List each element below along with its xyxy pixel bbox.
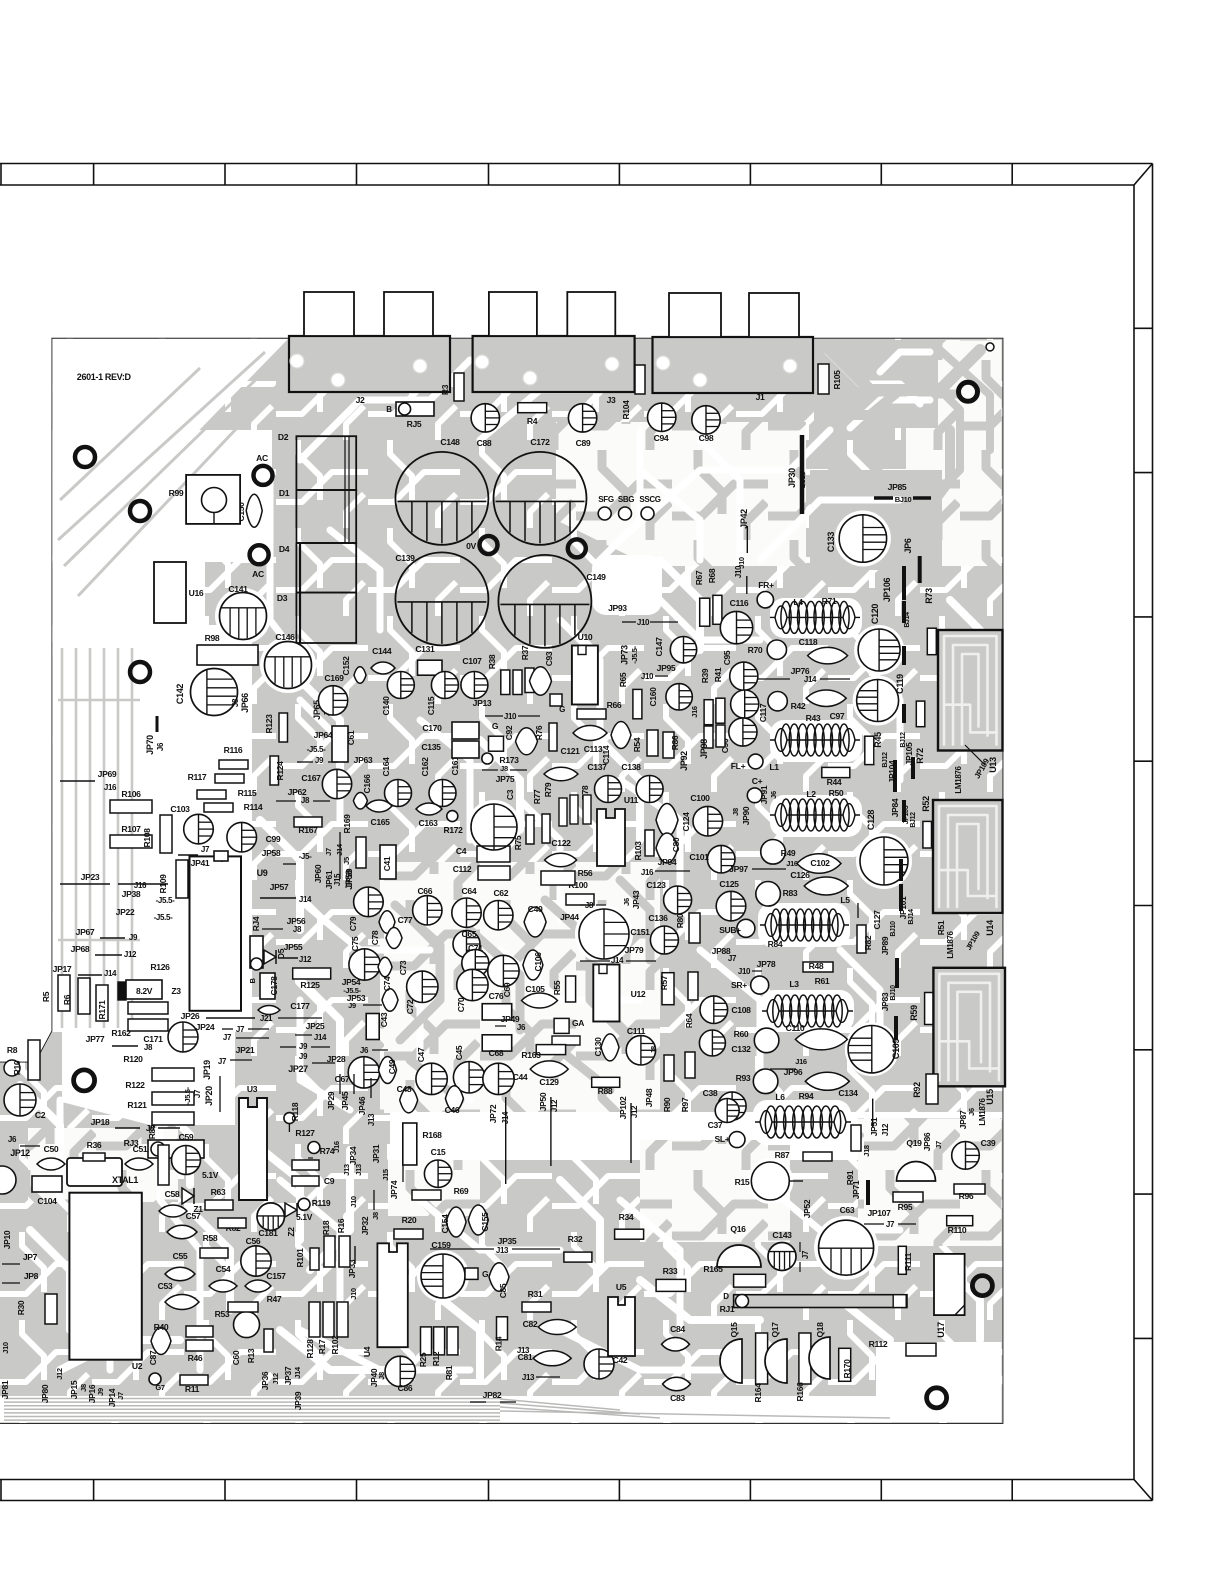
jumper JP71 (851, 1180, 868, 1205)
pad G (489, 721, 504, 751)
svg-text:R82: R82 (863, 935, 873, 950)
resistor R115 (197, 788, 257, 799)
resistor R127 (295, 1128, 319, 1154)
resistor R105 (818, 364, 842, 394)
IC U5 (608, 1282, 635, 1356)
jumper JP68 (71, 944, 137, 959)
svg-text:J10: J10 (504, 712, 517, 721)
svg-text:J15: J15 (381, 1169, 390, 1181)
svg-text:C99: C99 (266, 834, 281, 844)
svg-text:C148: C148 (440, 437, 460, 447)
resistor R38 (487, 654, 522, 694)
svg-text:J1: J1 (756, 392, 765, 402)
svg-text:R48: R48 (809, 961, 824, 971)
jumper JP105 (900, 732, 925, 779)
label LM1876 U14 (936, 920, 995, 959)
svg-text:R38: R38 (487, 654, 497, 669)
svg-text:JP81: JP81 (0, 1380, 10, 1399)
svg-text:R44: R44 (827, 777, 842, 787)
svg-text:R57: R57 (659, 975, 669, 990)
capacitor C133 (826, 515, 887, 562)
terminal SUB+ (719, 919, 755, 937)
svg-text:R56: R56 (578, 868, 593, 878)
jumper JP55 (278, 942, 312, 964)
svg-text:R112: R112 (869, 1339, 888, 1349)
svg-text:JP80: JP80 (40, 1384, 50, 1403)
node J6 left (8, 1135, 40, 1146)
resistor R81 (444, 1327, 458, 1380)
svg-text:JP103: JP103 (903, 805, 910, 824)
svg-text:C59: C59 (179, 1132, 194, 1142)
resistor R59 (909, 993, 936, 1025)
jumper BJ14 (904, 601, 911, 628)
svg-text:JP89: JP89 (880, 936, 890, 955)
connector J3 tab 2 (567, 292, 615, 336)
svg-text:R122: R122 (125, 1080, 145, 1090)
resistor R33 (656, 1266, 686, 1291)
jumper JP34 (342, 1146, 363, 1176)
svg-text:R128: R128 (305, 1339, 315, 1359)
svg-text:C107: C107 (462, 656, 482, 666)
svg-text:R111: R111 (903, 1252, 913, 1271)
svg-text:J7: J7 (728, 954, 737, 963)
capacitor C112 (453, 864, 510, 880)
diode D4 (279, 543, 356, 593)
svg-text:R39: R39 (700, 668, 710, 683)
resistor R46 (186, 1340, 213, 1363)
resistor R45 (865, 732, 883, 765)
svg-text:C39: C39 (981, 1138, 996, 1148)
svg-text:JP51: JP51 (869, 1117, 879, 1136)
svg-text:R33: R33 (663, 1266, 678, 1276)
svg-text:C78: C78 (370, 930, 380, 945)
svg-text:C66: C66 (417, 886, 432, 896)
IC U3 (239, 1084, 267, 1200)
svg-text:R105: R105 (832, 370, 842, 390)
svg-text:J7: J7 (801, 1250, 810, 1259)
jumper JP19 (202, 1057, 252, 1080)
resistor R55 (552, 976, 576, 1002)
transistor Q18 (809, 1322, 830, 1379)
svg-text:JP12: JP12 (10, 1148, 30, 1158)
svg-text:C163: C163 (419, 818, 439, 828)
svg-text:R171: R171 (97, 1000, 107, 1020)
terminal SR+ (731, 976, 769, 994)
jumper RJ5 (386, 402, 434, 429)
svg-text:-J5.5-: -J5.5- (154, 913, 173, 922)
svg-text:JP18: JP18 (91, 1117, 110, 1127)
svg-text:JP37: JP37 (283, 1366, 293, 1385)
svg-text:C64: C64 (462, 886, 477, 896)
svg-text:C164: C164 (381, 757, 391, 777)
capacitor C72 (405, 971, 438, 1014)
capacitor C95 (722, 650, 758, 690)
svg-text:J7: J7 (218, 1057, 227, 1066)
capacitor C138 (621, 762, 663, 803)
svg-text:C130: C130 (593, 1037, 603, 1057)
border frame (0, 164, 1153, 1501)
capacitor C48 (397, 1084, 418, 1113)
capacitor C137 (587, 762, 621, 803)
svg-text:J7: J7 (193, 1089, 202, 1098)
capacitor C125 (716, 879, 746, 921)
jumper JP107 (864, 1208, 916, 1229)
resistor R57 (659, 973, 674, 1005)
capacitor C38 (703, 1088, 746, 1120)
capacitor C166 (353, 774, 372, 809)
svg-text:C43: C43 (379, 1012, 389, 1027)
inductor R43 C97 (770, 711, 860, 756)
connector J3 (473, 336, 635, 405)
capacitor C135 (421, 741, 479, 758)
resistor R15 (735, 1162, 803, 1200)
svg-text:C77: C77 (398, 915, 413, 925)
svg-text:C118: C118 (799, 637, 818, 647)
svg-text:JP44: JP44 (560, 912, 579, 922)
resistor R39 (700, 668, 713, 725)
svg-text:R95: R95 (898, 1202, 913, 1212)
jumper JP74 (389, 1160, 403, 1199)
svg-text:R168: R168 (422, 1130, 442, 1140)
resistor R13 (246, 1329, 273, 1363)
svg-text:R127: R127 (295, 1128, 315, 1138)
svg-text:C108: C108 (731, 1005, 751, 1015)
svg-text:G: G (492, 721, 499, 731)
svg-text:JP55: JP55 (284, 942, 303, 952)
capacitor C60 (231, 1350, 241, 1365)
svg-text:C68: C68 (489, 1048, 504, 1058)
jumper JP42 (737, 509, 749, 569)
inductor L6 R94 (755, 1091, 851, 1138)
jumper JP98 (699, 725, 725, 759)
svg-text:JP95: JP95 (657, 663, 676, 673)
svg-text:C71: C71 (468, 943, 483, 953)
svg-text:JP50: JP50 (538, 1092, 548, 1111)
jumper JP13 (473, 698, 540, 721)
resistor R40 (154, 1322, 213, 1337)
resistor R106 (110, 789, 152, 813)
svg-text:C151: C151 (630, 927, 650, 937)
capacitor C64 (452, 886, 481, 927)
svg-text:J13: J13 (517, 1346, 530, 1355)
svg-text:R93: R93 (736, 1073, 751, 1083)
capacitor C169 (318, 673, 347, 715)
jumper JP56 (262, 916, 306, 934)
svg-text:C167: C167 (301, 773, 321, 783)
svg-text:C162: C162 (420, 757, 430, 777)
jumper JP21 (236, 1045, 255, 1055)
capacitor C115 (426, 672, 458, 716)
resistor R58 (200, 1233, 228, 1258)
svg-text:FR+: FR+ (758, 580, 774, 590)
capacitor C99 (227, 822, 281, 852)
svg-text:JP106: JP106 (882, 578, 892, 603)
svg-text:R73: R73 (924, 588, 934, 604)
svg-text:C48: C48 (397, 1084, 412, 1094)
resistor R114 (204, 802, 263, 812)
svg-text:C110: C110 (786, 1023, 805, 1033)
svg-text:C54: C54 (216, 1264, 231, 1274)
jumper JP57 (260, 882, 312, 904)
resistor R14 (494, 1317, 508, 1351)
svg-text:C166: C166 (362, 774, 372, 794)
svg-text:J12: J12 (881, 1123, 890, 1136)
svg-text:JP39: JP39 (293, 1391, 303, 1410)
capacitor C110 (786, 1023, 848, 1050)
capacitor C71 (462, 943, 489, 977)
svg-text:R11: R11 (185, 1384, 200, 1394)
svg-text:R8: R8 (7, 1045, 18, 1055)
svg-text:JP60: JP60 (313, 864, 323, 883)
resistor R4 (518, 403, 547, 426)
svg-text:J9: J9 (299, 1042, 308, 1051)
svg-text:B: B (386, 405, 392, 414)
transistor Q19 (897, 1138, 936, 1181)
svg-text:J8: J8 (649, 1046, 658, 1054)
svg-text:R14: R14 (494, 1336, 504, 1351)
terminal AC 1 (254, 453, 273, 485)
svg-text:C63: C63 (840, 1205, 855, 1215)
svg-text:J8: J8 (293, 925, 302, 934)
capacitor C147 (654, 637, 697, 663)
capacitor C172 (494, 437, 587, 545)
pad G2 (550, 694, 565, 714)
capacitor C140 (381, 672, 414, 716)
svg-text:R31: R31 (528, 1289, 543, 1299)
capacitor C144 (371, 646, 395, 674)
capacitor C61 (332, 726, 356, 762)
svg-text:J12: J12 (299, 955, 312, 964)
svg-text:C79: C79 (348, 916, 358, 931)
jumper JP35 (430, 1236, 560, 1255)
svg-text:C104: C104 (37, 1196, 57, 1206)
capacitor C129 (530, 1061, 568, 1087)
svg-text:J16: J16 (641, 868, 654, 877)
capacitor C141 (220, 584, 267, 640)
resistor R93 (736, 1069, 778, 1094)
capacitor C96 (720, 718, 757, 753)
jumper JP38 (122, 889, 175, 905)
capacitor C177 (258, 1001, 310, 1015)
svg-text:U10: U10 (578, 632, 593, 642)
svg-text:C127: C127 (872, 910, 882, 930)
capacitor C46 (445, 1086, 464, 1115)
svg-text:C9: C9 (324, 1176, 335, 1186)
jumper JP75 (496, 774, 515, 784)
svg-text:JP64: JP64 (314, 730, 333, 740)
svg-text:C172: C172 (530, 437, 550, 447)
capacitor C117 (731, 690, 768, 722)
resistor R119 (298, 1198, 331, 1210)
svg-text:R3: R3 (440, 384, 450, 395)
zener Z3 8.2V (118, 980, 181, 1000)
node J13 f (517, 1346, 530, 1355)
resistor R91 (845, 1125, 861, 1185)
svg-text:R101: R101 (295, 1248, 305, 1268)
test point SFG (598, 495, 614, 520)
capacitor C43 (366, 1012, 389, 1039)
svg-text:R90: R90 (662, 1097, 672, 1112)
svg-text:J7: J7 (886, 1220, 895, 1229)
svg-text:R104: R104 (621, 400, 631, 420)
resistor R30 (16, 1294, 57, 1324)
resistor R165 (703, 1264, 765, 1287)
svg-text:R86: R86 (670, 735, 680, 750)
svg-text:C160: C160 (648, 687, 658, 707)
svg-text:D1: D1 (279, 488, 290, 498)
transistor Q16 (717, 1224, 761, 1267)
svg-text:J7: J7 (324, 848, 333, 856)
IC U13 (938, 630, 1003, 751)
resistor R117 (188, 772, 244, 783)
capacitor C142 (175, 669, 238, 716)
inductor L3 R61 (762, 976, 853, 1027)
svg-text:C101: C101 (689, 852, 709, 862)
capacitor C101 (689, 845, 735, 873)
jumper JP63 (297, 755, 373, 765)
jumper JP76 (756, 666, 850, 684)
capacitor C56 (241, 1236, 271, 1276)
terminal C+ (747, 776, 762, 803)
svg-text:R60: R60 (734, 1029, 749, 1039)
capacitor C131 (415, 644, 442, 675)
svg-text:C142: C142 (175, 684, 185, 704)
jumper JP8 (2, 1271, 39, 1283)
zener Z2 (285, 1203, 297, 1237)
svg-text:R10: R10 (12, 1060, 22, 1075)
svg-text:J7: J7 (236, 1025, 245, 1034)
jumper JP79 (580, 945, 656, 965)
resistor R126 (128, 962, 170, 1014)
svg-text:J9: J9 (96, 1388, 105, 1396)
resistor R6 (62, 978, 90, 1014)
svg-text:R110: R110 (948, 1225, 967, 1235)
capacitor C86 (385, 1356, 415, 1393)
svg-text:C120: C120 (870, 604, 880, 624)
capacitor C109 (848, 1026, 901, 1073)
svg-text:C161: C161 (450, 756, 460, 776)
capacitor C66 (413, 886, 442, 925)
jumper JP70 (145, 716, 165, 755)
jumper JP93 (608, 603, 678, 627)
svg-text:R52: R52 (921, 796, 931, 812)
svg-text:RJ1: RJ1 (720, 1304, 735, 1314)
capacitor C87 (148, 1328, 171, 1366)
capacitor C107 (461, 656, 488, 699)
resistor R49 (761, 840, 796, 865)
svg-text:J6: J6 (517, 1023, 526, 1032)
svg-text:J13: J13 (342, 1164, 351, 1176)
svg-text:C37: C37 (708, 1120, 723, 1130)
jumper JP94 (641, 857, 690, 877)
capacitor C116 (720, 598, 752, 644)
resistor R54 (632, 730, 658, 756)
svg-text:C2: C2 (35, 1110, 46, 1120)
capacitor C170 (422, 722, 479, 739)
jumper RJ1 (720, 1292, 907, 1314)
svg-text:C155: C155 (480, 1212, 490, 1232)
resistor R80 (675, 913, 700, 943)
svg-text:R125: R125 (300, 980, 320, 990)
svg-text:R71: R71 (822, 596, 837, 606)
capacitor C83 (663, 1377, 691, 1403)
svg-text:J21: J21 (260, 1014, 273, 1023)
svg-text:R79: R79 (543, 782, 553, 797)
resistor R128 (305, 1302, 320, 1358)
svg-text:JP97: JP97 (729, 864, 748, 874)
svg-text:C116: C116 (730, 598, 749, 608)
svg-text:C49: C49 (387, 1059, 397, 1074)
svg-text:C82: C82 (523, 1319, 538, 1329)
resistor R5 (41, 975, 70, 1011)
label LM1876 U15 (958, 1089, 995, 1129)
svg-text:R98: R98 (205, 633, 220, 643)
jumper JP39 (293, 1391, 303, 1410)
capacitor C146 (265, 632, 312, 689)
svg-text:J7: J7 (201, 845, 210, 854)
capacitor C130 (593, 1034, 619, 1061)
svg-text:C47: C47 (416, 1047, 426, 1062)
svg-text:J6: J6 (622, 898, 631, 906)
resistor R18 (321, 1220, 335, 1267)
hole JP77 (74, 1070, 95, 1091)
svg-text:R68: R68 (707, 568, 717, 583)
svg-text:R87: R87 (775, 1150, 790, 1160)
resistor R83 (756, 882, 798, 907)
resistor R164 (753, 1333, 768, 1402)
resistor R8 (4, 1045, 20, 1076)
svg-text:JP84: JP84 (890, 798, 900, 817)
svg-text:C88: C88 (477, 438, 492, 448)
jumper JP52 (802, 1199, 812, 1218)
svg-text:C178: C178 (269, 976, 279, 996)
svg-text:R121: R121 (127, 1100, 147, 1110)
svg-text:Q18: Q18 (815, 1322, 825, 1338)
svg-text:R63: R63 (211, 1187, 226, 1197)
svg-text:R114: R114 (244, 802, 263, 812)
svg-text:C138: C138 (621, 762, 641, 772)
svg-text:J8: J8 (144, 1043, 153, 1052)
capacitor C76 (482, 991, 512, 1020)
svg-text:C73: C73 (398, 960, 408, 975)
capacitor C100 (690, 793, 722, 836)
svg-text:C128: C128 (866, 810, 876, 830)
svg-text:JP7: JP7 (23, 1252, 38, 1262)
svg-text:Z3: Z3 (171, 986, 181, 996)
capacitor C67 (327, 1046, 388, 1088)
svg-text:JP61: JP61 (324, 870, 334, 889)
node J7 row2 (223, 1033, 269, 1042)
svg-text:J8: J8 (301, 796, 310, 805)
svg-text:JP85: JP85 (888, 482, 907, 492)
capacitor C132 (699, 1030, 751, 1056)
svg-text:C125: C125 (719, 879, 739, 889)
capacitor C88 (471, 404, 499, 448)
svg-text:JP43: JP43 (631, 890, 641, 909)
svg-text:D3: D3 (277, 593, 288, 603)
svg-text:JP75: JP75 (496, 774, 515, 784)
jumper JP6 (903, 538, 920, 583)
svg-text:JP57: JP57 (270, 882, 289, 892)
svg-text:BJ13: BJ13 (798, 472, 807, 489)
svg-text:JP107: JP107 (867, 1208, 891, 1218)
svg-text:JP52: JP52 (802, 1199, 812, 1218)
capacitor C181 (257, 1203, 284, 1238)
svg-text:R50: R50 (829, 788, 844, 798)
svg-text:C41: C41 (382, 856, 392, 871)
svg-text:R170: R170 (842, 1359, 852, 1379)
svg-text:R49: R49 (781, 848, 796, 858)
